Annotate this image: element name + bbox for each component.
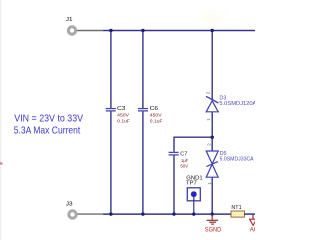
test point TP7: [186, 175, 203, 201]
wire: top net VIN: [103, 30, 255, 32]
capacitor C7: [169, 152, 189, 170]
wire: C7 upper: [173, 137, 175, 152]
ground SGND: [205, 214, 222, 233]
svg-text:NT1: NT1: [231, 205, 241, 211]
connector J1: [66, 17, 76, 34]
svg-text:50V: 50V: [180, 164, 188, 170]
wire: bottom ground net: [103, 213, 231, 215]
wire: D3 lower: [211, 112, 213, 137]
svg-text:450V: 450V: [150, 113, 163, 119]
svg-text:5.0SMDJ33CA: 5.0SMDJ33CA: [220, 156, 255, 162]
wire: D5 lower: [211, 177, 213, 214]
svg-text:1µF: 1µF: [181, 158, 188, 164]
svg-text:C7: C7: [180, 152, 187, 158]
connector J3: [66, 202, 76, 219]
ground AGND (clipped): [250, 214, 268, 234]
wire: D3 upper: [211, 31, 213, 101]
svg-text:C3: C3: [117, 106, 126, 112]
red dash left edge: [0, 162, 2, 164]
svg-text:TP7: TP7: [186, 181, 197, 187]
svg-text:450V: 450V: [117, 113, 130, 119]
capacitor C3: [106, 106, 130, 124]
wire: bottom net after NT1: [244, 213, 255, 215]
node: gnd/C3 junction: [109, 212, 112, 215]
svg-text:C6: C6: [150, 106, 159, 112]
wire: C6 branch lower: [142, 111, 144, 214]
svg-text:J3: J3: [66, 202, 73, 208]
svg-text:AGND: AGND: [250, 228, 255, 234]
svg-text:5.0SMDJ120A: 5.0SMDJ120A: [219, 101, 255, 107]
svg-text:0.1uF: 0.1uF: [117, 118, 130, 124]
svg-text:5.3A Max Current: 5.3A Max Current: [14, 126, 81, 137]
node: gnd/D5 junction: [211, 212, 214, 215]
node: VIN/C6 junction: [141, 29, 144, 32]
svg-text:SGND: SGND: [205, 227, 222, 233]
diode D3 TVS: [206, 91, 257, 120]
wire: C3 branch lower: [110, 111, 112, 214]
node: gnd/C6 junction: [141, 212, 144, 215]
svg-text:VIN = 23V to 33V: VIN = 23V to 33V: [14, 114, 83, 125]
wire: D5 upper: [211, 137, 213, 151]
svg-text:0.1uF: 0.1uF: [150, 118, 163, 124]
node: gnd/TP7 junction: [192, 212, 195, 215]
svg-text:J1: J1: [66, 17, 73, 23]
faded highlight ghost top right: [198, 12, 230, 28]
wire: J1 pin: [77, 30, 103, 32]
wire: C6 branch upper: [142, 31, 144, 109]
node: D3/D5/C7 junction: [211, 136, 214, 139]
node: VIN/D3 junction: [211, 29, 214, 32]
node: VIN/C3 junction: [109, 29, 112, 32]
node: gnd/C7 junction: [172, 212, 175, 215]
net tie NT1: [231, 205, 244, 217]
wire: TP7 to ground net: [193, 196, 195, 214]
wire: J3 pin: [78, 213, 104, 215]
wire: mid net to C7: [174, 136, 213, 138]
left image border: [0, 0, 1, 240]
wire: C3 branch upper: [110, 31, 112, 109]
wire: C7 lower: [173, 156, 175, 215]
capacitor C6: [138, 106, 163, 124]
diode D5 TVS bidirectional: [206, 143, 254, 185]
